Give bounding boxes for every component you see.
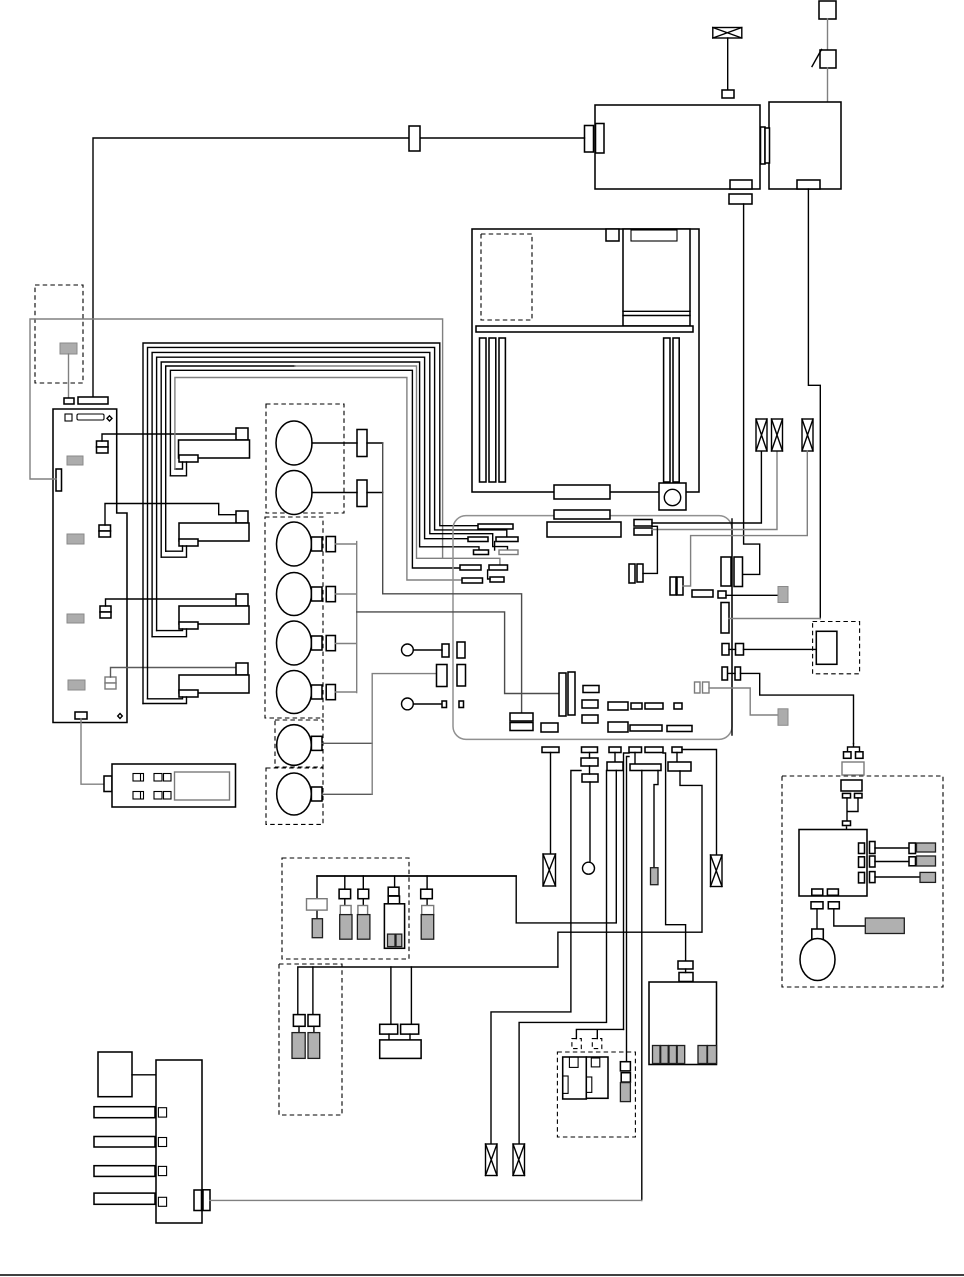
dashed enclosure injectors 1-4: [265, 517, 323, 718]
EGR switch 2 side port: [586, 1077, 592, 1092]
wire R3 to relay bus: [317, 771, 616, 923]
ECU fuse feed pin a: [634, 520, 652, 527]
coil 3 lead wires: [152, 629, 186, 637]
ECU edge pair y557 outer: [734, 557, 743, 587]
ECU edge pair y682 (gray): [695, 682, 701, 693]
ECU bottom pin R1: [542, 747, 559, 753]
plug drop wires: [313, 967, 412, 1024]
row 2 end pin: [909, 857, 916, 866]
R4 stub: [634, 753, 636, 765]
ECU bottom pin R5: [645, 747, 663, 753]
actuator control box: [799, 830, 867, 897]
indicator lamp L1: [713, 28, 742, 39]
ECU fuse feed pin b: [634, 528, 652, 535]
ECU left edge pin pair small: [442, 644, 449, 657]
EGR tee wire: [576, 1029, 623, 1038]
ECU pin terminal I: [462, 578, 483, 583]
EGR switch 1 notch: [569, 1057, 578, 1067]
fuse F1: [756, 419, 767, 451]
right vane bar 2: [673, 338, 679, 482]
coil 1 lead wires: [170, 462, 186, 476]
EGR switch 1 side port: [563, 1076, 568, 1093]
panel gray pad 4: [68, 680, 85, 690]
meter screw boss with circle: [659, 483, 686, 510]
coil 2 body: [179, 523, 249, 541]
ECU internal small terminal: [541, 723, 558, 732]
EGR solenoid body (gray): [620, 1083, 630, 1102]
relay bus wire: [317, 875, 516, 877]
relay B socket: [339, 889, 351, 899]
sensor 7 terminal: [311, 736, 322, 750]
R4 left hooks: [624, 753, 630, 1062]
wire bundle L1 coil4 to ECU pin A: [143, 343, 478, 704]
wire panel row3 to coil 3: [106, 599, 237, 606]
injector 4 terminal: [311, 685, 322, 699]
ECU bottom pin R2: [582, 747, 598, 753]
wire box A to left harness: [93, 138, 585, 397]
R3 connector: [607, 762, 623, 771]
coil 4 lead wires: [143, 697, 187, 704]
circuit opening relay box B: [769, 102, 841, 189]
ECU terminal pair 2: [670, 577, 676, 595]
solenoid valve body: [816, 631, 837, 664]
coil 2 cap: [236, 511, 248, 523]
relay E drop wire: [426, 876, 428, 906]
connector pair sockets: [380, 1024, 398, 1034]
dashed enclosure check connector: [35, 285, 83, 383]
control box row 1 pins: [859, 843, 865, 854]
control box row 3 pins: [859, 872, 865, 883]
relay D cap: [388, 887, 399, 896]
inline connector sensor 2: [357, 480, 367, 507]
ECU pin terminal A: [478, 524, 513, 529]
relay B drop wire: [344, 876, 346, 906]
distributor lead bar 2: [94, 1137, 155, 1148]
inline connector sensor 1: [357, 430, 367, 457]
fuel pump body: [649, 982, 717, 1065]
meter to ECU coupler: [554, 510, 610, 519]
injector 2 terminal: [311, 587, 322, 601]
gray wire driver pin to box B circuit: [729, 618, 820, 620]
injector 2 plug: [326, 587, 335, 602]
ECU bottom pin R3: [609, 747, 621, 753]
inline connector on harness wire: [409, 126, 420, 151]
wire bundle L6 coil2 to ECU pin F (black part): [166, 366, 295, 551]
terminal inside box A: [722, 107, 734, 114]
relay C drop wire: [362, 876, 364, 906]
R2 connector stack: [581, 758, 598, 766]
condenser square: [98, 1052, 132, 1097]
sensor circle 1: [276, 421, 312, 465]
pump terminal cells right (gray): [698, 1046, 707, 1064]
tester plug: [104, 776, 112, 792]
sensor circle 7: [277, 725, 312, 766]
tester button 1: [133, 774, 144, 782]
relay A socket: [307, 899, 328, 910]
dashed enclosure sensor 7: [275, 720, 323, 767]
injector circle 2: [277, 573, 312, 616]
wire R1 to fuse F4: [550, 753, 552, 855]
relay C socket: [358, 889, 369, 899]
ECU pin terminal B: [468, 537, 488, 542]
battery B1: [819, 1, 836, 19]
dashed stub square 1: [572, 1039, 581, 1049]
tester button 5: [154, 792, 162, 800]
coil 4 cap: [236, 663, 248, 675]
distributor lead bar 1: [94, 1107, 155, 1118]
ECU internal pin row: [608, 702, 628, 710]
injector 3 plug: [326, 636, 335, 651]
ECU bottom pin R6: [672, 747, 682, 753]
pump connector stack bottom: [679, 973, 693, 982]
gray diagnosis wire across bottom: [210, 1199, 642, 1201]
EGR switch body 2: [586, 1057, 608, 1098]
dashed enclosure relay group: [282, 858, 409, 959]
distributor lead bar 3: [94, 1166, 155, 1177]
ground screw circle 2: [402, 698, 414, 710]
wire box A bottom down right side: [743, 204, 760, 574]
fuse F5: [711, 855, 723, 887]
tester button 3: [154, 774, 162, 782]
ECU outline: [453, 516, 732, 740]
sensor circle 2: [276, 471, 312, 515]
wire socket to heater (gray block): [834, 909, 866, 926]
relay A drop wire: [316, 876, 318, 919]
row 1 wire: [875, 847, 909, 849]
injector circle 1: [277, 522, 312, 566]
sensor circle 8: [277, 773, 312, 815]
coil 4 terminal tab: [179, 690, 198, 697]
fuse F4: [543, 854, 556, 886]
EGR solenoid socket: [620, 1062, 630, 1071]
dashed enclosure EGR: [557, 1052, 635, 1137]
ECU pin terminal E: [499, 550, 518, 555]
coil 3 terminal tab: [179, 622, 198, 629]
ECU bottom pin R4: [629, 747, 642, 753]
wire pair y667 to fuel pump feed: [728, 673, 854, 743]
resistor R1 (gray): [778, 587, 788, 603]
dashed enclosure solenoid valve: [813, 622, 860, 674]
wire ground 2: [413, 703, 442, 705]
dashed enclosure diagnostic plugs: [279, 964, 342, 1115]
relay D contacts (gray): [388, 934, 396, 947]
connector pair housing: [380, 1040, 421, 1059]
wire check connector to panel: [68, 354, 70, 398]
R3 stub: [614, 753, 616, 763]
ECU edge pair y644: [722, 644, 729, 656]
wire pair y644 to solenoid connector: [729, 648, 816, 650]
ECU output bar: [692, 590, 713, 597]
injector circle 3: [277, 621, 312, 665]
coil 1 body: [179, 440, 250, 458]
coupler pins: [843, 793, 851, 798]
coil 4 body: [179, 675, 249, 693]
wire battery to ignition switch: [827, 19, 829, 50]
tester display: [175, 772, 230, 800]
left vane bar 1: [480, 338, 487, 482]
pump terminal cells left (gray): [653, 1046, 661, 1064]
slot lower lines: [623, 311, 690, 315]
coil 1 cap: [236, 428, 248, 440]
panel bottom terminal: [75, 712, 87, 719]
wire R5 to fuel pump: [663, 753, 686, 961]
fuse F6: [486, 1144, 498, 1176]
dashed enclosure sensor 8: [266, 768, 323, 824]
check connector body (gray): [60, 343, 77, 354]
plug 1 socket: [293, 1015, 305, 1027]
relay E socket: [421, 889, 433, 899]
meter bottom connector: [554, 485, 610, 499]
panel two-pin connector row1: [97, 441, 109, 453]
control box row 2 pins: [859, 857, 865, 868]
row 2 wire: [875, 861, 909, 863]
wire panel to tester: [81, 719, 104, 784]
coupler block 1: [842, 762, 864, 775]
distributor body: [156, 1060, 202, 1223]
ECU output pin: [718, 591, 726, 598]
ECU left edge pin pair tall: [437, 665, 448, 687]
wire output pin to resistor R1: [726, 594, 778, 596]
wire R3 branch to fuse F7: [519, 771, 606, 1145]
injector circle 4: [277, 671, 312, 714]
panel pin socket wide: [78, 397, 108, 404]
ECU internal bars: [559, 673, 566, 716]
wire R2 branch to fuse F6: [491, 771, 581, 1145]
coil 2 lead wires: [161, 546, 186, 557]
ECU pin terminal C: [496, 537, 518, 542]
pump connector stack top: [678, 961, 693, 969]
gray wires sensors 1-2 to ECU stack: [312, 443, 383, 493]
relay E plug white upper: [422, 906, 434, 915]
wire panel row2 to coil 2 (jog): [105, 504, 236, 526]
row 1 terminal (gray): [917, 843, 936, 852]
left vane bar 3: [499, 338, 505, 482]
actuator top terminal: [843, 821, 851, 826]
panel indicator square: [65, 414, 72, 421]
pump stack stub: [685, 969, 687, 973]
fuse F3: [802, 419, 813, 451]
wire bundle L6 gray part: [295, 366, 500, 565]
relay B plug white upper: [340, 906, 351, 915]
control box bottom pins: [812, 889, 823, 895]
R6 connector: [668, 762, 691, 771]
plug 2 body (gray): [308, 1033, 320, 1059]
ground screw circle 1: [402, 644, 414, 656]
cascade link C-E: [494, 542, 496, 551]
wire R6 to fuse F5: [682, 750, 717, 856]
relay B plug (gray): [340, 915, 352, 940]
slot window: [631, 230, 677, 241]
relay E plug (gray): [421, 915, 434, 940]
gray wires sensors 7-8 to ECU edge: [322, 743, 372, 794]
ECU edge pair y667: [722, 667, 728, 680]
panel two-pin connector row3: [100, 606, 111, 618]
gray wires injectors to collector: [335, 542, 356, 693]
wire R6 branch to starter bus: [558, 771, 702, 967]
air flow meter dashed window: [481, 234, 532, 320]
relay D drop wire: [394, 876, 396, 887]
distributor lead bar 4: [94, 1193, 155, 1204]
injector 4 plug: [326, 685, 335, 700]
gray collector wire to ECU bars: [357, 612, 559, 694]
panel two-pin connector row2: [99, 525, 111, 537]
fuse F2: [772, 419, 783, 451]
resistor R2 (gray): [778, 709, 788, 726]
ECU pin terminal D: [474, 550, 489, 555]
tester button 6: [164, 792, 172, 800]
ECU top connector block: [547, 522, 621, 537]
wire condenser to distributor: [132, 1074, 156, 1076]
panel gray pad 1: [67, 456, 83, 465]
oxygen sensor bulb: [800, 939, 835, 981]
tester button 4: [164, 774, 172, 782]
actuator top stub: [846, 827, 848, 830]
dashed stub square 2: [592, 1039, 602, 1049]
box B bottom connector: [797, 180, 820, 189]
coupler pin wires: [847, 798, 858, 821]
box A bottom connector: [730, 180, 752, 189]
panel diamond mark bottom: [118, 714, 123, 719]
EGR switch 2 notch: [591, 1058, 600, 1067]
ground circle G3: [583, 862, 595, 874]
injector 1 plug: [326, 537, 335, 552]
wire bundle L7 coil1 to ECU pin G: [170, 370, 460, 568]
connector pin on box A top: [722, 90, 734, 98]
second bus wire: [298, 967, 558, 1015]
panel left edge terminal: [56, 469, 62, 491]
feed connector split: [848, 744, 860, 752]
wire bundle L8 coil1 to ECU pin I: [175, 378, 462, 581]
wire R2 to ground circle: [589, 782, 591, 862]
distributor output connector: [194, 1190, 202, 1211]
ECU terminal pair 1: [629, 564, 635, 583]
EGR switch body 1: [563, 1057, 587, 1099]
ECU pin terminal H: [490, 577, 504, 582]
below-box sockets: [811, 902, 823, 909]
main relay box A: [595, 105, 760, 189]
bottom page border line: [0, 1274, 964, 1276]
black wire along ECU right edge: [731, 519, 733, 735]
sensor 8 terminal: [311, 787, 322, 801]
air flow meter body: [472, 229, 699, 492]
wire pair2 to fuse F3: [683, 451, 807, 586]
panel gray pad 3: [67, 614, 84, 623]
panel label slot: [77, 414, 104, 420]
right vane bar 1: [664, 338, 670, 482]
actuator top tab: [842, 831, 850, 836]
dashed enclosure sensors 1-2: [266, 404, 344, 513]
wire bundle L2 coil4 to ECU pin C: [148, 347, 507, 698]
plug 2 socket: [308, 1015, 320, 1027]
plug 1 body (gray): [292, 1033, 305, 1059]
panel gray pad 2: [67, 534, 84, 544]
row 3 terminal (gray): [920, 872, 936, 882]
wire bundle L5 coil2 to ECU pin D: [161, 362, 479, 557]
tester body: [112, 764, 236, 807]
oxygen sensor neck: [812, 929, 824, 940]
R6 stub: [676, 753, 678, 763]
relay D collar: [388, 896, 399, 904]
wire R4 to resistor R3g: [654, 771, 658, 868]
panel two-pin connector row4: [105, 677, 116, 689]
wire socket to oxygen sensor: [816, 909, 818, 929]
connector pair stubs: [389, 1034, 410, 1040]
wire panel row4 to coil 4: [111, 668, 237, 678]
coil 1 terminal tab: [179, 455, 198, 462]
coil 3 body: [179, 606, 249, 624]
cascade link F-H: [488, 570, 490, 579]
air flow meter top terminal: [606, 229, 619, 241]
coil 3 cap: [236, 594, 248, 606]
box A left connector pins: [585, 126, 594, 153]
ignition switch SW1: [820, 50, 836, 68]
ECU tall driver pin: [721, 603, 729, 634]
wire panel row1 to coil 1: [102, 434, 236, 441]
ECU edge pair y557 inner: [721, 557, 731, 586]
EGR solenoid collar: [621, 1073, 630, 1082]
distributor terminal squares: [158, 1108, 166, 1117]
relay C plug white upper: [358, 906, 368, 915]
feed connector squares: [844, 752, 852, 759]
ECU pin terminal F: [489, 565, 508, 570]
row 2 terminal (gray): [917, 856, 936, 866]
relay D body: [384, 904, 404, 949]
wire ground 1: [413, 649, 442, 651]
wire bundle L4 coil3 to ECU pin B: [157, 357, 468, 630]
connector between box A and box B: [761, 127, 766, 164]
gray wire pair y682 to resistor R2: [709, 688, 778, 715]
dashed enclosure actuator group: [782, 776, 943, 987]
plug stubs: [299, 1026, 314, 1032]
wire ignition switch to relay box B: [827, 68, 829, 102]
panel diamond mark top: [107, 416, 112, 421]
injector 3 terminal: [311, 636, 322, 650]
ECU internal bottom row: [608, 722, 628, 732]
coupler block 2: [841, 780, 862, 791]
ECU tiny pin pair: [442, 701, 447, 708]
ECU internal terminal stack: [510, 713, 533, 721]
ECU internal pin column: [583, 686, 599, 693]
injector 1 terminal: [311, 537, 322, 551]
tester button 2: [133, 792, 144, 800]
wire ECU pin a to fuse F1: [652, 451, 761, 523]
wire pair1 to fuse pin: [643, 526, 657, 573]
fuse F7: [513, 1144, 525, 1176]
wire lamp to box A: [727, 38, 729, 90]
relay A plug (gray): [312, 919, 322, 938]
switch lever: [812, 50, 822, 67]
relay C plug (gray): [357, 915, 370, 940]
junction panel body: [53, 409, 127, 723]
R4 long connector: [630, 764, 661, 771]
panel pin socket small: [64, 398, 74, 404]
coil 2 terminal tab: [179, 539, 198, 546]
wire bundle L3 coil3 to ECU pin E: [152, 352, 507, 636]
wire box B down to ECU resistor (jog): [808, 189, 820, 619]
gray sensor return wire to ECU cascade: [30, 319, 443, 558]
heater block (gray): [865, 918, 904, 934]
left vane bar 2: [489, 338, 496, 482]
ECU pin terminal G: [460, 565, 481, 570]
row 1 end pin: [909, 843, 916, 854]
wire R4 to diagnosis line: [641, 771, 643, 1201]
row 3 wire: [875, 876, 920, 878]
air flow meter divider bar: [476, 326, 693, 332]
air flow meter slot column: [623, 229, 690, 326]
wire ECU pin b to fuse F2: [652, 451, 777, 529]
R2 stack stubs: [589, 753, 591, 775]
resistor R3g (gray): [651, 868, 659, 885]
